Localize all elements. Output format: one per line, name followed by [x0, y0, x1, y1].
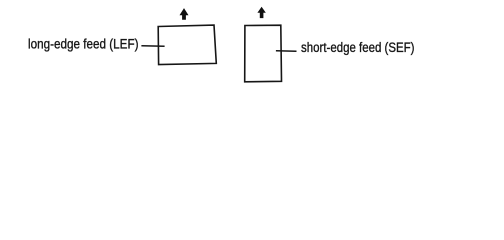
leader line from SEF paper outline to label: [276, 50, 297, 53]
svg-text:short-edge feed (SEF): short-edge feed (SEF): [301, 40, 415, 56]
feed-direction arrow above SEF paper: [257, 7, 265, 18]
paper outline LEF (landscape rectangle): [158, 25, 216, 65]
paper outline SEF (portrait rectangle): [245, 25, 282, 82]
leader line from LEF label to paper outline: [141, 45, 164, 48]
svg-text:long-edge feed (LEF): long-edge feed (LEF): [28, 36, 139, 52]
feed-direction arrow above LEF paper: [180, 8, 189, 20]
